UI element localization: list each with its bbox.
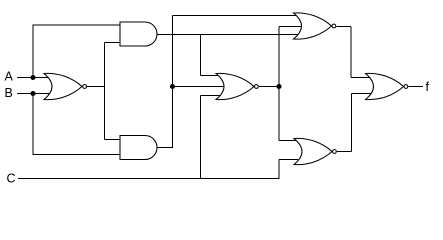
wire input B <box>17 93 49 95</box>
wire U5 output to NOR U7 input 1 <box>336 27 372 78</box>
wire U1 output <box>87 86 105 88</box>
wire node N1 to NOR U5 input 1 <box>173 15 300 17</box>
AND gate U3 <box>120 136 157 160</box>
wire C riser to NOR U6 input 2 <box>279 160 298 179</box>
wire U2 output branch down to NOR U4 input 1 <box>201 35 226 76</box>
wire node N2 up to NOR U5 input 2 <box>279 27 302 87</box>
wire A branch to AND U2 input 1 <box>33 25 123 78</box>
wire U1-out riser to U2 input 2 and U3 input 1 <box>105 43 123 140</box>
AND gate U2 <box>120 22 157 46</box>
NOR gate U5 (3-input, top) <box>294 13 336 39</box>
NOR gate U6 (bottom) <box>294 138 336 164</box>
wire C branch up to NOR U4 input 3 <box>201 96 226 179</box>
junction dot node N1 <box>170 84 175 89</box>
junction dot node N2 <box>276 84 281 89</box>
junction dot node A <box>30 75 35 80</box>
svg-text:f: f <box>426 80 430 94</box>
NOR gate U4 (3-input, middle) <box>216 73 258 99</box>
wire node N2 down to NOR U6 input 1 <box>279 87 298 141</box>
wire node N1 to NOR U4 input 2 <box>173 86 227 88</box>
wire U3 output up to node N1 <box>157 16 173 148</box>
svg-text:B: B <box>5 86 13 100</box>
wire U7 output to f <box>408 86 423 88</box>
wire U6 output to NOR U7 input 2 <box>337 94 372 152</box>
wire input A <box>17 77 50 79</box>
wire input C <box>18 178 280 180</box>
wire U2 output across to NOR U5 input 3 <box>157 34 301 36</box>
junction dot node B <box>30 91 35 96</box>
wire U4 output to node N2 <box>259 86 279 88</box>
svg-text:C: C <box>7 172 16 186</box>
svg-text:A: A <box>5 70 14 84</box>
NOR gate U1 (inputs A, B) <box>44 73 87 99</box>
NOR gate U7 (output) <box>366 73 408 99</box>
wire B branch to AND U3 input 2 <box>33 94 123 155</box>
